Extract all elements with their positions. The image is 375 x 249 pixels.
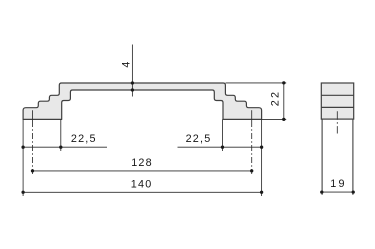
dim 140 bbox=[23, 191, 262, 193]
svg-text:22,5: 22,5 bbox=[71, 133, 97, 145]
dim 140 end dots bbox=[21, 191, 24, 194]
svg-text:128: 128 bbox=[131, 157, 153, 169]
dim 4 end dots bbox=[131, 81, 134, 84]
dim 22 extension lines bbox=[226, 82, 287, 84]
dim 22,5 right bbox=[178, 146, 262, 148]
dim 19 bbox=[322, 191, 353, 193]
side view top block with step lines bbox=[321, 83, 353, 119]
dim 22 line bbox=[283, 83, 285, 120]
svg-text:22,5: 22,5 bbox=[186, 133, 212, 145]
extension line right foot inner edge bbox=[222, 119, 224, 151]
dim 22,5 left end dots bbox=[21, 146, 24, 149]
svg-text:22: 22 bbox=[270, 90, 282, 106]
handle profile front view (outer + inner stepped contour, solid feet) bbox=[23, 83, 262, 119]
extension line left foot inner edge bbox=[60, 119, 62, 151]
left hole axis centerline bbox=[32, 110, 34, 121]
dim 19 end dots bbox=[320, 190, 323, 193]
side view step edge lines bbox=[321, 94, 353, 96]
extension line right outer edge bbox=[261, 119, 263, 196]
dim 22,5 left bbox=[23, 146, 107, 148]
side view centerline bbox=[336, 111, 338, 133]
right hole axis centerline bbox=[251, 110, 253, 121]
dim 128 bbox=[33, 170, 252, 172]
side view lower body sides bbox=[321, 119, 323, 195]
dim 4 vertical line through bar bbox=[131, 45, 133, 97]
dim 128 end dots bbox=[31, 169, 34, 172]
extension line left outer edge bbox=[22, 119, 24, 196]
svg-text:140: 140 bbox=[131, 178, 153, 190]
svg-text:4: 4 bbox=[120, 60, 132, 67]
svg-text:19: 19 bbox=[330, 178, 346, 190]
dim 22 end dots bbox=[282, 81, 285, 84]
dim 22,5 right end dots bbox=[221, 146, 224, 149]
